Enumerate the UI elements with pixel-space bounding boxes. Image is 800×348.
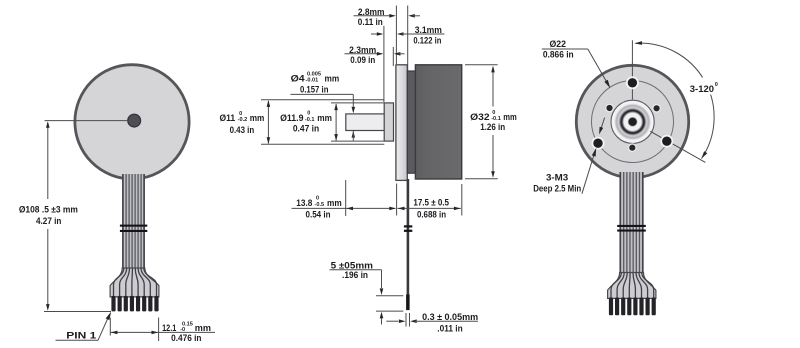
center line to hub xyxy=(45,120,131,122)
svg-text:0.47 in: 0.47 in xyxy=(293,123,320,134)
svg-text:0.3 ± 0.05mm: 0.3 ± 0.05mm xyxy=(422,311,478,322)
svg-text:1.26 in: 1.26 in xyxy=(480,121,505,132)
label Ø22 / 0.866 in with leader xyxy=(542,38,611,88)
right view: rear face circle xyxy=(576,65,688,177)
svg-text:mm: mm xyxy=(250,112,265,123)
dimension 3.1mm / 0.122 in xyxy=(371,24,445,45)
svg-text:13.8: 13.8 xyxy=(296,197,312,208)
svg-text:Deep 2.5 Min: Deep 2.5 Min xyxy=(533,182,581,193)
left connector pins (8) xyxy=(111,296,158,312)
right ribbon cable xyxy=(620,172,644,273)
extension lines 13.8/17.5 xyxy=(346,180,462,216)
svg-text:12.1: 12.1 xyxy=(162,322,176,333)
svg-text:0.476 in: 0.476 in xyxy=(171,332,202,343)
svg-text:0.11 in: 0.11 in xyxy=(358,16,383,27)
svg-text:mm: mm xyxy=(327,197,342,208)
right cable flare and connector xyxy=(608,273,656,299)
dimension 2.3mm / 0.09 in xyxy=(345,44,405,65)
dimension Ø32 0/-0.1 mm / 1.26 in xyxy=(465,65,517,179)
svg-text:0.866 in: 0.866 in xyxy=(543,49,574,60)
svg-text:Ø4: Ø4 xyxy=(291,73,306,84)
M3 mounting holes (3x) xyxy=(592,76,674,149)
angular dimension arc 3-120 deg xyxy=(635,41,722,158)
svg-text:Ø108 .5 ±3 mm: Ø108 .5 ±3 mm xyxy=(19,203,78,214)
left center hub dot xyxy=(128,114,141,127)
dimension Ø4 +0.005/-0.01 mm / 0.157 in xyxy=(291,71,356,140)
side view cable edge-on xyxy=(406,179,410,310)
dimension Ø11.9 0/-0.1 mm / 0.47 in xyxy=(280,104,338,141)
svg-text:.196 in: .196 in xyxy=(342,269,368,280)
svg-text:3-M3: 3-M3 xyxy=(546,171,568,182)
right cable stiffener bars xyxy=(617,225,646,232)
dimension 5 ±05mm / .196 in xyxy=(330,260,404,325)
svg-text:-0.5: -0.5 xyxy=(315,202,325,208)
svg-text:mm: mm xyxy=(325,73,340,84)
svg-text:0.09 in: 0.09 in xyxy=(350,54,375,65)
svg-text:Ø22: Ø22 xyxy=(550,38,567,49)
side view front plate xyxy=(396,65,407,181)
svg-text:0: 0 xyxy=(316,196,319,202)
left view ribbon cable xyxy=(122,174,145,268)
side cable stiffener bars xyxy=(404,225,412,232)
right connector pins (8) xyxy=(609,298,656,316)
svg-text:mm: mm xyxy=(317,112,332,123)
svg-text:3-120: 3-120 xyxy=(690,83,714,94)
svg-text:0.122 in: 0.122 in xyxy=(413,34,441,45)
dimension 13.8 0/-0.5 mm / 0.54 in xyxy=(292,196,396,220)
svg-text:PIN 1: PIN 1 xyxy=(66,330,96,341)
left cable flare and connector body xyxy=(110,268,159,297)
svg-text:.011 in: .011 in xyxy=(437,322,463,333)
dimension 2.8mm / 0.11 in xyxy=(354,6,421,27)
svg-text:mm: mm xyxy=(503,111,517,122)
side view motor body Ø32 xyxy=(415,65,461,179)
svg-text:4.27 in: 4.27 in xyxy=(36,215,62,226)
dimension 17.5 ± 0.5 / 0.688 in xyxy=(398,196,461,219)
top extension lines xyxy=(384,6,408,103)
small index dots (3x) xyxy=(605,104,661,153)
svg-text:0.54 in: 0.54 in xyxy=(306,209,331,220)
collar extension lines xyxy=(261,100,384,145)
dimension Ø108.5 ±3 mm / 4.27 in (vertical) xyxy=(19,121,111,311)
svg-text:17.5 ± 0.5: 17.5 ± 0.5 xyxy=(413,196,449,207)
dimension Ø11 0/-0.2 mm / 0.43 in xyxy=(220,100,271,144)
svg-text:0: 0 xyxy=(492,110,495,116)
dimension 0.3 ± 0.05mm / .011 in xyxy=(386,311,478,333)
svg-text:0.688 in: 0.688 in xyxy=(417,208,446,219)
svg-text:mm: mm xyxy=(195,322,211,333)
svg-text:0: 0 xyxy=(715,82,718,88)
side view body notch strip xyxy=(407,71,415,173)
bolt circle Ø22 xyxy=(592,81,674,163)
left view: motor front face circle xyxy=(75,65,189,179)
svg-text:Ø11: Ø11 xyxy=(220,112,236,123)
dimension 12.1 +0.15/-0 mm / 0.476 in xyxy=(110,318,215,344)
svg-text:0.43 in: 0.43 in xyxy=(230,124,255,135)
svg-text:0.005: 0.005 xyxy=(307,71,321,77)
side view collar boss Ø11.9 xyxy=(384,103,393,141)
side view shaft xyxy=(346,114,386,131)
radial line through top hole xyxy=(631,40,633,99)
svg-text:0: 0 xyxy=(239,111,242,117)
short leader arrow to M3 hole from above xyxy=(599,118,605,135)
center hub with bearing rings xyxy=(611,100,654,143)
label PIN 1 with leader xyxy=(56,312,112,341)
radial line through lower-right hole xyxy=(650,131,705,162)
svg-text:0.157 in: 0.157 in xyxy=(300,83,329,94)
svg-text:0: 0 xyxy=(307,111,310,117)
svg-text:-0.2: -0.2 xyxy=(238,117,248,123)
left cable stiffener bars xyxy=(120,225,147,232)
label 3-M3 Deep 2.5 Min with leader xyxy=(533,148,596,194)
svg-text:Ø11.9: Ø11.9 xyxy=(280,112,303,123)
